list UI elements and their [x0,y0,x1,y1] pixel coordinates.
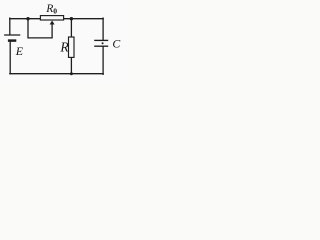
capacitor C bottom plate [94,45,108,47]
svg-text:R: R [59,40,69,55]
wire right edge upper (top-right corner down to capacitor) [102,18,104,39]
svg-text:0: 0 [53,7,57,16]
node junction dot (slider tap on top wire) [26,17,29,20]
wire left edge lower (battery down to bottom-left corner) [9,42,11,74]
wire left edge upper (top-left corner down to battery) [9,18,11,34]
svg-text:R: R [45,2,53,15]
wire top (left segment, corner to R0 box) [10,18,41,20]
node junction dot (bottom of R branch) [70,72,73,75]
svg-text:C: C [112,37,120,51]
node small dot between capacitor plates [102,42,104,44]
svg-text:E: E [15,44,24,58]
wire R branch upper (top wire down to resistor R) [70,19,72,37]
wire bottom (bottom-left to bottom-right corner) [10,73,103,75]
resistor R0 (rheostat body) [40,16,63,20]
battery E bottom plate (short thick) [8,39,16,42]
node junction dot (top of R branch) [70,17,73,20]
wire slider bypass (tap on top wire, down, right, up to slider arrow) [28,19,52,38]
battery E top plate (long thin) [4,34,20,36]
wire top (right segment, R0 box to top-right corner) [64,18,104,20]
capacitor C top plate [94,39,108,41]
resistor R (vertical box) [69,37,75,57]
rheostat slider arrow (points up at R0 body) [50,21,55,25]
wire right edge lower (capacitor down to bottom-right corner) [102,47,104,74]
wire R branch lower (resistor R down to bottom wire) [70,57,72,73]
